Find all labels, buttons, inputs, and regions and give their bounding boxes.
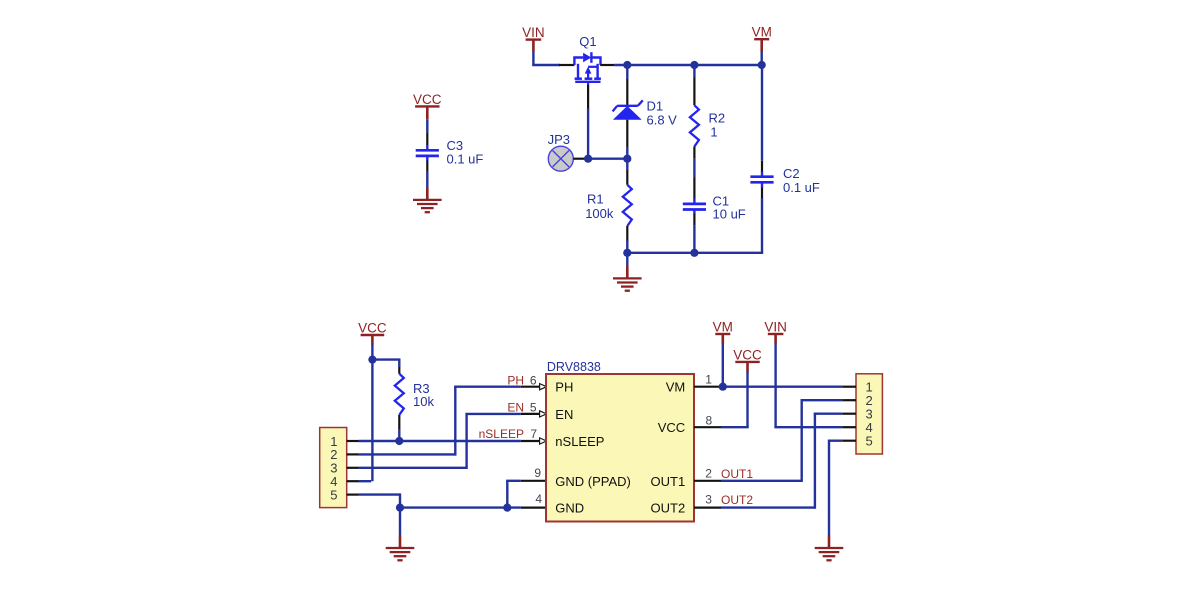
- wire net nSLEEP: [359, 440, 521, 442]
- wire VCC down: [359, 344, 373, 481]
- pin J2-3: [842, 407, 872, 422]
- svg-text:5: 5: [866, 434, 873, 449]
- connector J1 (left 5-pin): [320, 428, 347, 508]
- node GND-pin5: [396, 504, 404, 512]
- pin J1-5: [330, 487, 358, 502]
- label R1 value: [585, 191, 614, 221]
- pin J1-1: [330, 434, 358, 449]
- pin DRV8838 VCC 8: [694, 426, 721, 428]
- pin R3 top: [398, 367, 400, 374]
- pin JP3: [573, 158, 584, 160]
- wire net OUT2: [721, 414, 842, 509]
- svg-text:9: 9: [534, 466, 541, 480]
- pin DRV8838 PH 6: [521, 384, 547, 390]
- pin C3 bottom: [426, 161, 428, 172]
- svg-text:R2: R2: [709, 111, 726, 126]
- pin R3 bottom: [398, 415, 400, 429]
- svg-text:VCC: VCC: [658, 420, 685, 435]
- resistor R1 100k: [623, 185, 632, 226]
- power symbol VCC (IC): [733, 347, 762, 372]
- node JP3-D1: [623, 155, 631, 163]
- node bottomrail-R1: [623, 249, 631, 257]
- label net PH 6: [507, 373, 536, 387]
- label C2 value: [783, 166, 820, 195]
- pin Q1 source: [559, 64, 575, 66]
- wire Q1 gate to JP3 node: [587, 109, 589, 159]
- svg-text:5: 5: [330, 487, 337, 502]
- pin DRV8838 OUT2 3: [694, 507, 721, 509]
- svg-text:nSLEEP: nSLEEP: [555, 434, 604, 449]
- pin DRV8838 GND PPAD 9: [521, 480, 546, 482]
- wire VIN to connector pin4: [774, 343, 842, 427]
- wire net EN: [359, 414, 521, 469]
- pin C3 top: [426, 132, 428, 145]
- ground symbol GND (top): [613, 266, 642, 291]
- wire VM rail: [614, 64, 761, 66]
- svg-text:5: 5: [530, 401, 537, 415]
- wire net PH: [359, 387, 521, 456]
- label R3 value: [413, 381, 434, 409]
- label net EN 5: [507, 401, 536, 415]
- node VM-net1: [719, 383, 727, 391]
- svg-text:PH: PH: [507, 373, 524, 387]
- wire D1 to JP3 node: [626, 147, 628, 170]
- pin J2-2: [842, 393, 872, 408]
- wire VIN to Q1: [532, 51, 560, 65]
- pin DRV8838 VM 1: [694, 386, 721, 388]
- node rail-R2: [690, 61, 698, 69]
- wire rail to D1: [626, 65, 628, 79]
- label pin names left: [555, 380, 631, 516]
- svg-text:7: 7: [530, 427, 537, 441]
- svg-text:10k: 10k: [413, 394, 434, 409]
- label R2 value: [709, 111, 726, 140]
- svg-text:OUT2: OUT2: [721, 493, 753, 507]
- svg-text:DRV8838: DRV8838: [547, 360, 601, 374]
- capacitor C3: [416, 145, 439, 161]
- ground symbol GND (C3): [413, 187, 442, 212]
- pin DRV8838 GND 4: [521, 507, 546, 509]
- svg-text:VCC: VCC: [358, 320, 387, 335]
- svg-text:2: 2: [705, 467, 712, 481]
- pin J1-2: [330, 447, 358, 462]
- label net 3 OUT2: [705, 493, 753, 507]
- svg-text:GND (PPAD): GND (PPAD): [555, 474, 631, 489]
- wire VM stub: [761, 51, 763, 65]
- svg-text:VIN: VIN: [522, 25, 545, 40]
- node GND-PPAD: [503, 504, 511, 512]
- pin D1 anode: [626, 120, 628, 147]
- label C3 value: [447, 138, 484, 167]
- node rail-VM: [758, 61, 766, 69]
- power symbol VM: [752, 25, 772, 52]
- pin C1 top: [693, 178, 695, 200]
- wire GND to ground: [399, 508, 401, 536]
- pin Q1 gate: [587, 85, 589, 109]
- node JP3-gate: [584, 155, 592, 163]
- power symbol VCC (bottom): [358, 320, 387, 344]
- label net nSLEEP 7: [479, 427, 538, 441]
- wire R2 to C1: [693, 159, 695, 178]
- wire net OUT1: [721, 400, 842, 482]
- resistor R3 10k: [395, 374, 404, 415]
- wire VCC to C3: [426, 119, 428, 132]
- wire C1 to bottom rail: [693, 225, 695, 252]
- wire net GND from pin5: [359, 493, 521, 507]
- connector J2 (right 5-pin): [856, 374, 882, 454]
- svg-text:0.1 uF: 0.1 uF: [447, 152, 484, 167]
- node bottomrail-C1: [690, 249, 698, 257]
- svg-text:OUT1: OUT1: [651, 474, 686, 489]
- jumper JP3: [548, 146, 573, 171]
- svg-text:EN: EN: [507, 401, 524, 415]
- pin C2 top: [761, 161, 763, 172]
- svg-text:VM: VM: [666, 380, 686, 395]
- svg-text:3: 3: [705, 493, 712, 507]
- pin R2 top: [693, 78, 695, 106]
- power symbol VIN (bottom): [764, 319, 787, 344]
- label C1 value: [713, 194, 746, 222]
- pin J2-1: [842, 380, 872, 395]
- svg-text:OUT1: OUT1: [721, 467, 753, 481]
- pin R1 top: [626, 170, 628, 185]
- pin R1 bottom: [626, 226, 628, 241]
- capacitor C2 0.1uF: [750, 171, 773, 187]
- wire rail to GND: [626, 253, 628, 266]
- wire VCC to R3: [372, 358, 399, 367]
- svg-text:R1: R1: [587, 191, 604, 206]
- wire VM to net: [722, 343, 724, 386]
- pin J1-4: [330, 474, 358, 489]
- svg-text:VCC: VCC: [733, 347, 762, 362]
- op-amp U1 DRV8838 IC body: [546, 374, 694, 522]
- svg-text:nSLEEP: nSLEEP: [479, 427, 524, 441]
- svg-text:0.1 uF: 0.1 uF: [783, 180, 820, 195]
- pin Q1 drain: [600, 64, 614, 66]
- svg-text:JP3: JP3: [548, 132, 570, 147]
- svg-text:OUT2: OUT2: [651, 501, 686, 516]
- pin DRV8838 EN 5: [521, 411, 547, 417]
- wire VCC to pin8: [721, 372, 749, 427]
- svg-text:PH: PH: [555, 380, 573, 395]
- wire VM rail to C2: [761, 64, 763, 161]
- wire net GND right: [829, 440, 842, 536]
- svg-text:Q1: Q1: [579, 34, 596, 49]
- svg-text:C2: C2: [783, 166, 800, 181]
- pin C2 bottom: [761, 188, 763, 199]
- svg-text:6.8 V: 6.8 V: [647, 112, 678, 127]
- ground symbol GND (bottom right): [815, 535, 844, 560]
- wire GND PPAD branch: [506, 481, 521, 507]
- ground symbol GND (bottom left): [386, 535, 415, 560]
- node rail-D1: [623, 61, 631, 69]
- power symbol VIN: [522, 25, 545, 52]
- capacitor C1 10uF: [683, 199, 706, 215]
- wire net VM to connector: [721, 386, 842, 388]
- pin J1-3: [330, 461, 358, 476]
- label net 2 OUT1: [705, 467, 753, 482]
- svg-text:1: 1: [710, 125, 717, 140]
- svg-text:D1: D1: [647, 99, 664, 114]
- pin DRV8838 OUT1 2: [694, 480, 721, 482]
- pin J2-4: [842, 420, 872, 435]
- wire C2 to bottom rail: [627, 198, 763, 253]
- label D1 value: [647, 99, 678, 128]
- svg-text:6: 6: [530, 373, 537, 387]
- svg-text:VIN: VIN: [764, 319, 787, 334]
- svg-text:VM: VM: [713, 319, 733, 334]
- pin DRV8838 nSLEEP 7: [521, 438, 547, 444]
- pin D1 cathode: [626, 79, 628, 106]
- svg-text:100k: 100k: [585, 206, 614, 221]
- diode D1 zener 6.8V: [613, 100, 643, 119]
- power symbol VCC (C3): [413, 92, 442, 119]
- resistor R2 1: [690, 105, 699, 146]
- svg-text:VCC: VCC: [413, 92, 442, 107]
- svg-text:VM: VM: [752, 25, 772, 40]
- wire R3 to nSLEEP net: [398, 429, 400, 441]
- node R3-nSLEEP: [395, 437, 403, 445]
- svg-text:8: 8: [706, 414, 713, 428]
- wire JP3 node: [584, 157, 627, 159]
- transistor Q1 P-MOSFET: [574, 52, 601, 85]
- label pin names right: [651, 380, 686, 516]
- power symbol VM (bottom): [713, 319, 733, 344]
- pin J2-5: [842, 434, 872, 449]
- wire R1 to bottom rail: [626, 241, 628, 253]
- svg-text:EN: EN: [555, 407, 573, 422]
- pin R2 bottom: [693, 147, 695, 159]
- pin C1 bottom: [693, 214, 695, 226]
- svg-text:GND: GND: [555, 501, 584, 516]
- node VCC-R3: [368, 356, 376, 364]
- svg-text:1: 1: [705, 372, 712, 386]
- wire rail to R2: [693, 65, 695, 78]
- svg-text:4: 4: [535, 492, 542, 506]
- svg-text:10 uF: 10 uF: [713, 207, 746, 222]
- wire C3 to GND: [426, 172, 428, 188]
